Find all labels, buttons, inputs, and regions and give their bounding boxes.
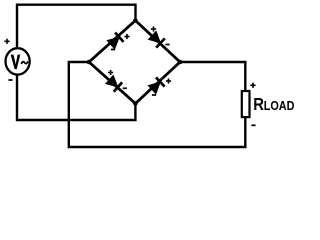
svg-text:R: R (253, 95, 264, 114)
svg-text:LOAD: LOAD (264, 98, 295, 113)
